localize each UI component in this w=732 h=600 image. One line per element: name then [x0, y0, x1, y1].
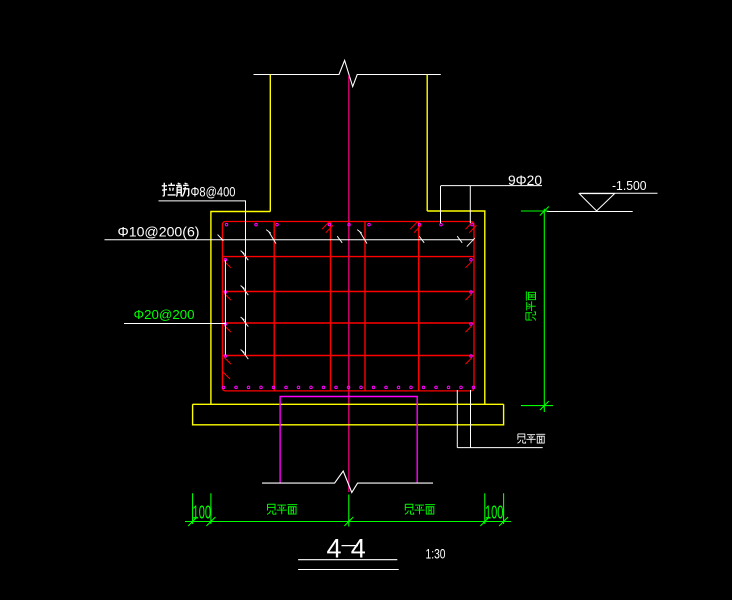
top rebar dots 9d20 (magenta rings) [225, 223, 473, 226]
red double hooks on top bars [322, 222, 476, 233]
white hooks on stirrup leader [218, 235, 475, 247]
svg-text:Φ20@200: Φ20@200 [134, 307, 195, 322]
svg-text:9Φ20: 9Φ20 [508, 172, 542, 188]
top bar label leader 9d20 (white) [441, 186, 543, 224]
dim text see-plan left (green) [267, 504, 297, 514]
svg-text:4: 4 [327, 534, 342, 564]
horizontal rebar layers (red) [222, 257, 474, 356]
svg-text:100: 100 [485, 503, 504, 523]
column left edge (yellow) [269, 75, 271, 212]
bottom dimension ticks (green) [188, 517, 508, 526]
right side rebar dots (magenta rings) [470, 258, 473, 357]
bottom rebar dots d20@200 (magenta rings) [222, 386, 475, 389]
svg-text:4: 4 [351, 534, 366, 564]
right dimension ticks (green) [540, 207, 549, 411]
svg-text:100: 100 [193, 503, 212, 523]
svg-text:-1.500: -1.500 [612, 178, 647, 193]
centerline (magenta-pink axis) [348, 76, 350, 493]
label tie bars d8@400 (white text) [162, 183, 189, 197]
svg-text:1:30: 1:30 [426, 547, 446, 562]
footing outline (yellow) [211, 211, 485, 404]
red hooks at right side dots [466, 261, 473, 364]
stirrup label leader (white horizontal) [105, 239, 475, 241]
elevation marker -1.500 (white) [579, 192, 657, 194]
right dimension line (green) [521, 209, 553, 412]
tie-bar label leader (white) [159, 201, 246, 356]
white hooks at tops of stirrup legs [266, 230, 367, 244]
tie-bar hooks on leader (white) [241, 251, 249, 360]
dim text see-plan right (green) [405, 504, 435, 514]
bottom bar label leader (white) [124, 260, 225, 355]
svg-text:Φ8@400: Φ8@400 [191, 183, 236, 199]
break line (top of column, white zigzag) [254, 60, 441, 86]
bottom dimension line (green) [185, 521, 511, 523]
bottom-right see-plan leader (white) [457, 390, 542, 448]
break line (bottom pier, white zigzag) [262, 471, 433, 493]
column right edge (yellow) [426, 75, 428, 212]
leveling pad (yellow) [193, 404, 504, 425]
svg-text:Φ10@200(6): Φ10@200(6) [118, 224, 200, 240]
pier below footing (magenta) [280, 397, 417, 484]
title underlines [298, 560, 399, 570]
right dimension text see-plan (green, rotated) [526, 291, 536, 320]
left side rebar dots (magenta rings) [224, 258, 227, 357]
red hooks at left side dots [223, 261, 231, 379]
vertical stirrup legs (red) [274, 222, 419, 391]
bottom dimension extension lines (green) [193, 493, 504, 526]
stirrup cage outer rectangle (red) [222, 222, 474, 391]
label see-plan bottom right (white) [517, 434, 545, 443]
